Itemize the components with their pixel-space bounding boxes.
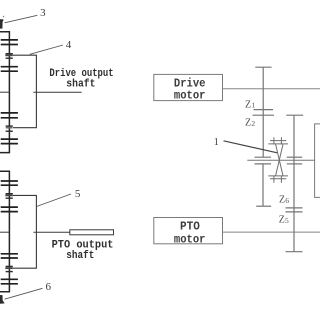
axis line of drive output shaft (right piece) — [33, 91, 81, 93]
axis line of drive output shaft (left piece) — [0, 91, 9, 93]
svg-text:4: 4 — [66, 39, 72, 51]
gear Z6 tick — [286, 207, 303, 209]
bearing bar left lower — [255, 163, 272, 165]
gear G3b on shaft S1 — [1, 117, 18, 119]
svg-text:6: 6 — [285, 196, 289, 205]
coupling K1 hub — [5, 54, 13, 56]
connection line: drive motor to shaft — [223, 88, 320, 90]
svg-text:2: 2 — [251, 119, 255, 128]
second shaft bottom T-bar — [286, 251, 303, 253]
label Z6 — [279, 194, 289, 205]
leader line to label 1 — [224, 141, 278, 153]
clutch X-symbol: upper spline verticals — [273, 137, 275, 144]
gear G5a on shaft S2 — [1, 180, 18, 182]
drive shaft top T-bar — [255, 66, 271, 68]
bearing mark M2 (bottom left) — [0, 295, 5, 304]
leader line to label 5 — [37, 194, 72, 207]
second shaft (vertical) — [293, 115, 295, 252]
label Z1 — [245, 99, 255, 110]
bracket B2 (PTO selector frame) — [13, 195, 37, 268]
coupling K4 ticks — [6, 265, 13, 267]
svg-text:1: 1 — [251, 101, 255, 110]
leader line to label 6 — [5, 288, 43, 299]
gear Z2 tick — [253, 114, 275, 116]
svg-text:Z: Z — [279, 214, 285, 225]
gear Z1 tick — [254, 109, 274, 111]
Drive motor box — [154, 74, 223, 100]
bearing bar right lower — [287, 163, 302, 165]
gear G8a on shaft S2 — [1, 278, 18, 280]
svg-text:motor: motor — [174, 232, 206, 246]
svg-text:shaft: shaft — [66, 78, 95, 90]
svg-text:5: 5 — [75, 188, 81, 200]
lower-left shaft bottom T-bar — [256, 205, 271, 207]
shaft S1 (upper input shaft, vertical) with top/bottom L-corners — [0, 32, 9, 153]
clutch X-symbol: upper bars — [270, 140, 286, 142]
bearing bar left upper — [255, 156, 272, 158]
bearing mark M1 (top left) — [0, 19, 4, 28]
gear G6a on shaft S2 — [1, 206, 18, 208]
leader line to label 4 — [30, 45, 63, 54]
clutch X-symbol: lower bars — [268, 175, 288, 177]
gear G7a on shaft S2 — [1, 253, 18, 255]
svg-text:Z: Z — [279, 194, 285, 205]
gear G4a on shaft S1 — [1, 138, 18, 140]
center horizontal shaft line — [247, 159, 314, 161]
gear G4b on shaft S1 — [1, 143, 18, 145]
svg-text:3: 3 — [40, 7, 46, 19]
gear G3a on shaft S1 — [1, 112, 18, 114]
coupling K3 hub — [5, 194, 13, 196]
svg-text:6: 6 — [46, 281, 52, 293]
svg-text:1: 1 — [214, 137, 219, 148]
gear G7b on shaft S2 — [1, 257, 18, 259]
drive shaft (vertical) — [262, 67, 264, 157]
right bracket (output, cropped at edge) — [315, 124, 320, 197]
svg-text:Z: Z — [245, 99, 251, 110]
PTO motor box — [154, 218, 223, 244]
svg-text:Z: Z — [245, 118, 251, 129]
svg-text:shaft: shaft — [66, 250, 94, 262]
connection line: PTO motor to shaft — [223, 231, 320, 233]
leader line to label 3 — [5, 15, 38, 22]
svg-text:5: 5 — [285, 216, 289, 225]
clutch X-symbol: lower spline verticals — [273, 176, 275, 183]
clutch X-symbol: diagonal 1 — [276, 144, 283, 176]
PTO output shaft rectangle — [70, 230, 114, 235]
axis line of PTO output shaft (right piece) — [33, 231, 69, 233]
gear G8b on shaft S2 — [1, 283, 18, 285]
gear G1a on shaft S1 — [1, 39, 18, 41]
gear G2b on shaft S1 — [1, 70, 18, 72]
svg-text:motor: motor — [174, 88, 206, 102]
coupling K2 ticks — [6, 125, 13, 127]
clutch X-symbol: diagonal 2 — [276, 144, 283, 176]
second shaft top T-bar — [286, 114, 303, 116]
gear G2a on shaft S1 — [1, 66, 18, 68]
coupling K2 hub — [6, 127, 13, 129]
coupling K4 hub — [5, 267, 13, 269]
axis line of PTO output shaft (left piece) — [0, 231, 9, 233]
gear G1b on shaft S1 — [1, 44, 18, 46]
gear G6b on shaft S2 — [1, 211, 18, 213]
label Z2 — [245, 118, 255, 129]
coupling K3 ticks — [6, 193, 13, 195]
gear Z5 tick — [286, 211, 303, 213]
bracket B1 (drive output selector frame) — [13, 55, 37, 128]
coupling K1 ticks — [6, 53, 13, 55]
lower-left shaft segment — [262, 164, 264, 206]
gear G5b on shaft S2 — [1, 184, 18, 186]
bearing bar right upper — [287, 156, 302, 158]
label Z5 — [279, 214, 289, 225]
shaft S2 (lower input shaft, vertical) with top/bottom L-corners — [0, 171, 9, 291]
